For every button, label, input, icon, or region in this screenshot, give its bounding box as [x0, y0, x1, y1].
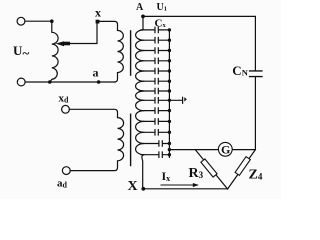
- svg-text:ad: ad: [57, 178, 68, 190]
- svg-text:X: X: [128, 179, 138, 194]
- svg-text:G: G: [221, 143, 230, 157]
- svg-text:R3: R3: [189, 166, 204, 181]
- svg-text:Cx: Cx: [155, 18, 167, 30]
- svg-text:CN: CN: [232, 63, 248, 78]
- svg-text:A: A: [136, 2, 144, 13]
- svg-text:Ix: Ix: [162, 169, 171, 183]
- svg-text:Z4: Z4: [249, 168, 263, 183]
- svg-text:~: ~: [23, 46, 30, 61]
- svg-text:x: x: [95, 5, 101, 19]
- svg-text:U1: U1: [157, 2, 167, 13]
- svg-text:xd: xd: [59, 93, 70, 105]
- svg-text:a: a: [93, 66, 99, 80]
- svg-text:U: U: [13, 43, 23, 58]
